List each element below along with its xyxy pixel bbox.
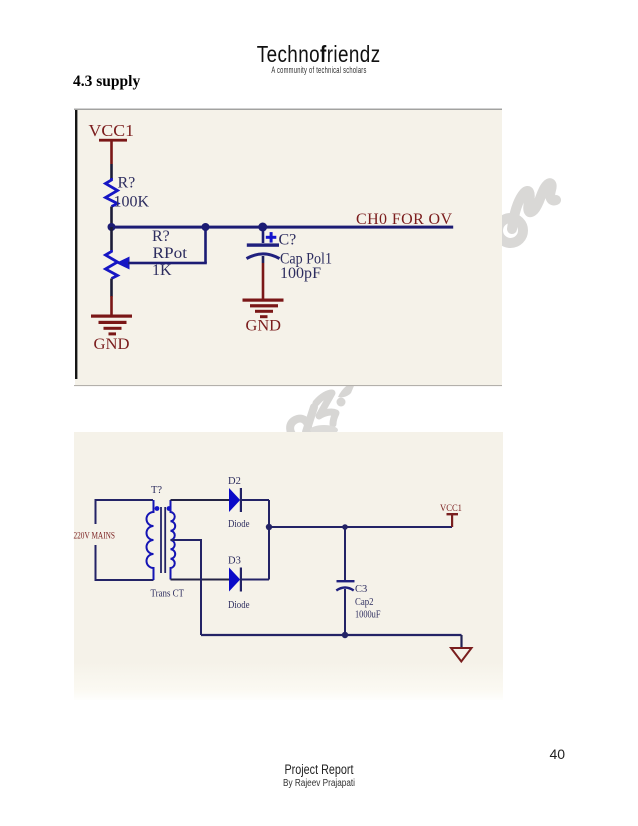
image 1 top border: [74, 109, 502, 110]
watermark letter d: [290, 407, 314, 439]
image 1 bottom border: [74, 385, 502, 386]
center tap wire: [171, 540, 202, 635]
wire capacitor to ground (red part): [262, 263, 265, 299]
svg-text:T?: T?: [151, 485, 162, 496]
svg-text:Diode: Diode: [228, 600, 250, 611]
svg-text:Diode: Diode: [228, 519, 250, 530]
node D junction dot: [266, 524, 272, 530]
ground symbol GND right: [243, 299, 284, 319]
wire node A to potentiometer: [110, 227, 113, 250]
watermark letter o (partially hidden): [498, 218, 523, 243]
svg-text:100pF: 100pF: [280, 265, 321, 282]
watermark letter z: [316, 393, 336, 424]
node junction dot B: [202, 223, 210, 231]
label R? of resistor: [118, 175, 136, 192]
page number 40: [550, 746, 566, 762]
svg-text:1000uF: 1000uF: [355, 610, 381, 621]
cap label Cap Pol1: [280, 251, 332, 268]
potentiometer R? RPot zigzag: [106, 250, 118, 279]
pot value 1K: [152, 262, 172, 279]
svg-text:C?: C?: [279, 232, 297, 249]
node E junction dot: [342, 524, 348, 530]
capacitor C3 curved plate: [336, 588, 353, 591]
wiper horizontal wire: [128, 262, 207, 265]
ground arrow symbol: [451, 648, 472, 662]
wire node C to capacitor: [262, 227, 265, 243]
diode D3 name label: [228, 600, 250, 611]
resistor R? 100K: [106, 178, 118, 207]
capacitor C3 top plate: [337, 580, 355, 582]
cap label Cap2: [355, 597, 374, 608]
capacitor plus sign: [266, 232, 277, 243]
svg-text:Trans CT: Trans CT: [151, 589, 185, 600]
watermark blob near second image: [310, 425, 338, 435]
svg-text:R?: R?: [152, 228, 170, 245]
capacitor C? top plate: [247, 243, 279, 246]
diode D3: [229, 568, 241, 592]
ground symbol GND left: [91, 315, 132, 336]
GND label left: [94, 336, 130, 353]
node junction dot C: [258, 223, 267, 232]
watermark dot: [337, 398, 346, 407]
svg-text:RPot: RPot: [153, 245, 188, 262]
header subtitle: [115, 65, 523, 75]
svg-text:R?: R?: [118, 175, 136, 192]
section heading 4.3 supply: [73, 73, 140, 91]
power label VCC1: [89, 121, 135, 140]
bottom rail wire: [201, 634, 462, 636]
wire resistor to node: [110, 207, 113, 228]
svg-text:1K: 1K: [152, 262, 172, 279]
node F junction dot: [342, 632, 348, 638]
diode D2 label: [228, 476, 241, 487]
schematic image 2 background: [74, 432, 503, 700]
wire capacitor to ground (dark part): [262, 256, 265, 263]
transformer phase dot left: [155, 506, 160, 511]
footer author: [57, 778, 580, 789]
svg-text:VCC1: VCC1: [89, 121, 135, 140]
capacitor C? curved plate: [247, 254, 280, 259]
node junction dot A: [108, 223, 116, 231]
svg-text:VCC1: VCC1: [440, 504, 462, 514]
transformer core lines: [161, 507, 165, 573]
svg-text:D2: D2: [228, 476, 241, 487]
value label 100K: [114, 194, 150, 211]
watermark letter m: [512, 183, 556, 229]
VCC1 bar symbol right: [447, 513, 459, 515]
wire VCC1 down (red part): [110, 141, 113, 164]
schematic image 1 background: [75, 109, 502, 386]
wire secondary bottom to D3: [171, 579, 230, 581]
svg-text:D3: D3: [228, 556, 241, 567]
main horizontal rail wire: [110, 226, 453, 229]
net label CH0 FOR OV: [356, 211, 453, 228]
svg-text:GND: GND: [246, 318, 282, 335]
power label VCC1 right: [440, 504, 462, 514]
cap label C?: [279, 232, 297, 249]
svg-text:100K: 100K: [114, 194, 150, 211]
transformer secondary winding: [171, 500, 176, 580]
svg-text:220V MAINS: 220V MAINS: [74, 532, 116, 542]
wire secondary top to D2: [171, 499, 230, 501]
ground stub wire: [460, 635, 462, 648]
wire node E to C3: [344, 527, 346, 580]
diode D2 name label: [228, 519, 250, 530]
transformer T? primary winding: [147, 500, 154, 580]
wire into resistor (dark part): [110, 164, 113, 179]
GND label right: [246, 318, 282, 335]
wire mains bottom: [96, 545, 154, 580]
image 1 left black border: [75, 110, 77, 379]
source label 220V MAINS: [74, 532, 116, 542]
wire C3 to bottom rail: [344, 589, 346, 635]
pot label R?: [152, 228, 170, 245]
watermark letter w partial: [338, 381, 356, 397]
cap label C3: [355, 584, 367, 595]
footer Project Report: [64, 762, 574, 777]
wire pot to ground (red part): [110, 296, 113, 315]
svg-text:GND: GND: [94, 336, 130, 353]
wire D3 cathode to bus: [241, 579, 269, 581]
transformer label T?: [151, 485, 162, 496]
wiper vertical wire to node B: [204, 227, 207, 263]
svg-text:Cap2: Cap2: [355, 597, 374, 608]
cap value 1000uF: [355, 610, 381, 621]
transformer phase dot right: [167, 506, 172, 511]
wire D2 cathode to node D: [241, 499, 269, 501]
header logo Technofriendz: [57, 41, 580, 68]
diode D2: [229, 488, 241, 512]
diode D3 label: [228, 556, 241, 567]
wire VCC1 stub: [451, 515, 453, 527]
svg-text:C3: C3: [355, 584, 367, 595]
cap value 100pF: [280, 265, 321, 282]
potentiometer wiper arrowhead: [116, 257, 130, 270]
wire vertical diode bus: [268, 500, 270, 580]
wire mains top: [96, 500, 154, 524]
transformer label Trans CT: [151, 589, 185, 600]
pot label RPot: [153, 245, 188, 262]
svg-text:CH0 FOR OV: CH0 FOR OV: [356, 211, 453, 228]
output rail wire: [269, 526, 452, 528]
wire pot to ground (dark part): [110, 279, 113, 297]
VCC1 bar symbol: [99, 139, 127, 142]
